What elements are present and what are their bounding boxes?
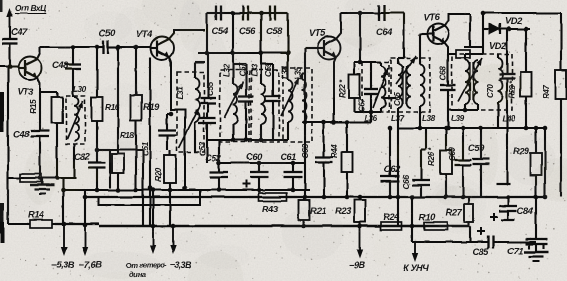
svg-text:VT6: VT6 bbox=[423, 11, 440, 22]
L30 tuning arrow bbox=[67, 101, 83, 139]
resistor R23 bbox=[355, 197, 366, 226]
node emitter RC bbox=[95, 148, 100, 153]
capacitor C70 bbox=[499, 29, 515, 184]
resistor R44 bbox=[342, 122, 353, 197]
drop 4 bbox=[287, 13, 289, 53]
label R28* bbox=[508, 80, 517, 99]
label C67 bbox=[357, 98, 366, 112]
label C85 bbox=[472, 246, 489, 257]
wire after C50 bbox=[118, 46, 151, 48]
label L33 bbox=[250, 63, 259, 77]
label VD2 lower bbox=[489, 40, 507, 51]
inductor L32 coil bbox=[233, 53, 238, 140]
node bbox=[524, 126, 529, 131]
osc injection riser bbox=[152, 190, 154, 226]
label L39 bbox=[451, 114, 465, 123]
VT5 base rail bbox=[305, 48, 317, 197]
label C52 bbox=[205, 152, 222, 163]
capacitor C55 bbox=[200, 53, 216, 112]
capacitor C59 shunt bbox=[266, 70, 281, 140]
wire C59 top bbox=[261, 64, 273, 70]
node bbox=[369, 110, 374, 115]
inductor L40 winding bbox=[474, 60, 479, 104]
inductor L37 coil bbox=[398, 58, 403, 108]
label C50 bbox=[99, 27, 116, 38]
VT5 collector to top bus bbox=[336, 13, 341, 39]
wire top bus y47 bbox=[40, 46, 97, 48]
label C53 bbox=[198, 141, 207, 156]
svg-text:C48: C48 bbox=[13, 128, 30, 139]
arrow oscillator input bbox=[150, 226, 156, 254]
inductor L38 coil bbox=[420, 60, 425, 128]
label C55 bbox=[206, 81, 215, 96]
node bbox=[506, 195, 511, 200]
svg-text:L39: L39 bbox=[451, 114, 465, 123]
svg-text:C85: C85 bbox=[472, 246, 489, 257]
left drop of filter bbox=[206, 13, 208, 53]
C70 column end bar bbox=[496, 183, 510, 185]
node R19 tap bbox=[134, 45, 139, 50]
capacitor C57 bbox=[239, 70, 254, 140]
resistor R24 bbox=[364, 222, 412, 230]
svg-text:C62: C62 bbox=[384, 163, 401, 174]
label От гетеродина bbox=[126, 261, 167, 279]
label -5,3В bbox=[51, 259, 75, 270]
label C47 bbox=[11, 26, 28, 37]
wire C57 top bbox=[233, 64, 246, 70]
plus C85 bbox=[477, 227, 485, 235]
label C63 bbox=[301, 143, 310, 158]
svg-text:C67: C67 bbox=[357, 98, 366, 112]
inductor L33 coil bbox=[261, 53, 266, 140]
capacitor C60 electrolytic bbox=[250, 163, 269, 190]
inductor L35 coil bbox=[302, 80, 307, 122]
riser x143 bbox=[142, 150, 144, 226]
label C60 bbox=[246, 151, 263, 162]
L36 tuning arrow bbox=[373, 68, 388, 108]
resistor R21 bbox=[299, 197, 310, 226]
drop 3 bbox=[260, 13, 262, 53]
capacitor C53 bbox=[199, 112, 216, 163]
label R24 bbox=[383, 211, 400, 222]
top bus right of VT5 bbox=[341, 12, 404, 14]
arrow -7.6V bbox=[82, 225, 88, 256]
svg-text:−9В: −9В bbox=[349, 259, 366, 270]
inductor L31 shield box bbox=[177, 72, 204, 152]
inductor L34 coil bbox=[288, 53, 293, 140]
VT6 base rail bbox=[420, 34, 427, 60]
wire VT3 base bbox=[0, 65, 19, 67]
node bbox=[446, 126, 451, 131]
wire L30 bottom to ground bus bbox=[73, 144, 75, 178]
plus C84 bbox=[490, 213, 498, 221]
node bbox=[61, 188, 66, 193]
label C84 bbox=[517, 205, 534, 216]
svg-text:C47: C47 bbox=[11, 26, 28, 37]
node bbox=[148, 186, 153, 191]
label R18 bbox=[120, 130, 135, 140]
label C65 bbox=[393, 92, 402, 106]
scan corner artifact bbox=[0, 0, 3, 12]
top bus of filter bbox=[207, 12, 288, 14]
svg-text:C71: C71 bbox=[507, 245, 523, 256]
VT3 emitter wire bbox=[37, 77, 40, 92]
label L34 bbox=[281, 65, 290, 79]
core lines L37 bbox=[403, 66, 406, 104]
label VT4 bbox=[136, 28, 153, 39]
inductor L31 coil bbox=[195, 72, 200, 152]
label VT3 bbox=[17, 86, 34, 97]
node bbox=[332, 120, 337, 125]
node R16 tap bbox=[95, 45, 100, 50]
resistor R18 bbox=[112, 47, 124, 190]
bottom bus bbox=[55, 224, 470, 226]
inter-box link bbox=[383, 97, 396, 99]
node bbox=[95, 188, 100, 193]
capacitor C82 bbox=[89, 150, 106, 190]
wire VT3 collector to top bus bbox=[37, 47, 40, 59]
label C68 bbox=[439, 66, 448, 80]
capacitor C84 electrolytic bbox=[499, 197, 517, 220]
label -9В bbox=[349, 259, 366, 270]
VT4 emitter wire bbox=[169, 57, 185, 188]
wire filter bottom to bus bbox=[218, 140, 220, 163]
transformer shield box L39 L40 bbox=[452, 54, 512, 110]
node bbox=[543, 195, 548, 200]
node bbox=[418, 126, 423, 131]
wire C51 top bbox=[167, 112, 173, 117]
label R27 bbox=[446, 206, 463, 217]
transistor VT6 bbox=[427, 24, 449, 45]
wire bus corner to audio bbox=[412, 226, 470, 242]
resistor R28 bbox=[521, 29, 532, 128]
capacitor C63 bbox=[315, 122, 333, 197]
label C70 bbox=[486, 84, 495, 98]
svg-text:VT3: VT3 bbox=[17, 86, 34, 97]
svg-text:R43: R43 bbox=[262, 203, 279, 214]
capacitor C66 bbox=[412, 128, 430, 197]
svg-text:−3,3В: −3,3В bbox=[170, 260, 193, 270]
capacitor C51 bbox=[158, 114, 176, 150]
resistor R29 bbox=[531, 128, 542, 197]
label R19 bbox=[143, 101, 160, 112]
label R20 bbox=[154, 167, 163, 182]
label R47 bbox=[542, 85, 551, 99]
svg-text:R20: R20 bbox=[154, 167, 163, 182]
capacitor C48 lower (emitter bypass) bbox=[31, 92, 50, 178]
node bbox=[358, 11, 363, 16]
transformer L34 L35 shield box bbox=[283, 68, 312, 142]
label C59 bbox=[468, 142, 485, 153]
node bbox=[322, 195, 327, 200]
wire R15 down to ground bus bbox=[56, 125, 58, 178]
label R14 bbox=[28, 209, 45, 220]
svg-text:VD2: VD2 bbox=[505, 15, 523, 26]
node bbox=[410, 224, 415, 229]
label C69 bbox=[448, 147, 457, 161]
svg-text:VT5: VT5 bbox=[309, 27, 326, 38]
label C82 bbox=[74, 151, 91, 162]
wire to R15 bbox=[40, 91, 57, 93]
label C58 bbox=[266, 25, 283, 36]
wire C50 node down bbox=[149, 57, 151, 226]
svg-text:R23: R23 bbox=[335, 205, 352, 216]
label C61 bbox=[280, 151, 296, 162]
label К УНЧ bbox=[403, 262, 430, 273]
drop 2 bbox=[232, 13, 234, 53]
scan edge artifact lower bbox=[0, 203, 4, 243]
capacitor C56 series bbox=[233, 6, 261, 21]
capacitor C62 bbox=[381, 128, 400, 197]
wire from VT3 base node down left rail bbox=[7, 66, 9, 224]
svg-text:L30: L30 bbox=[73, 85, 87, 94]
wire L39 top bbox=[465, 48, 483, 54]
label C64 bbox=[376, 26, 393, 37]
node bbox=[83, 223, 88, 228]
capacitor C69 bbox=[455, 128, 472, 197]
resistor R15 bbox=[52, 92, 63, 125]
label -3,3В bbox=[170, 260, 193, 270]
node bbox=[259, 11, 264, 16]
capacitor C61 bbox=[284, 163, 303, 190]
node bbox=[534, 126, 539, 131]
svg-text:L40: L40 bbox=[502, 114, 516, 123]
label R44 bbox=[330, 143, 339, 158]
node bbox=[217, 161, 222, 166]
VT6 emitter wire bbox=[444, 42, 456, 54]
node bbox=[257, 161, 262, 166]
label R10 bbox=[419, 211, 436, 222]
wire top bus corner down bbox=[398, 13, 404, 58]
label -7,6В bbox=[79, 259, 103, 270]
L31 tuning arrow bbox=[179, 108, 199, 148]
label R16 bbox=[105, 102, 120, 112]
node C48 tap bbox=[71, 45, 76, 50]
node bbox=[151, 188, 156, 193]
svg-text:C63: C63 bbox=[301, 143, 310, 158]
L32 tuning arrow bbox=[224, 82, 243, 118]
core lines L39 bbox=[470, 62, 473, 100]
jog wire bbox=[97, 150, 110, 188]
label C56 bbox=[239, 25, 256, 36]
arrow to AF amp bbox=[412, 242, 418, 262]
transistor VT3 bbox=[18, 57, 42, 80]
wire L35 bottom bbox=[302, 121, 305, 123]
L39 tuning arrow bbox=[458, 58, 482, 102]
node bbox=[302, 224, 307, 229]
capacitor C68 bbox=[441, 54, 456, 110]
wire det out rail bbox=[544, 128, 546, 197]
capacitor C52 bbox=[210, 140, 228, 190]
transformer shield box L37 bbox=[391, 58, 430, 112]
label R15 bbox=[29, 99, 38, 114]
wire R22 top bbox=[353, 62, 355, 72]
VT4 collector wire bbox=[169, 30, 205, 39]
label VD2 top bbox=[505, 15, 523, 26]
label C71 bbox=[507, 245, 523, 256]
label L36 bbox=[364, 114, 378, 123]
node bbox=[231, 138, 236, 143]
filter shield box 1 bbox=[220, 70, 249, 142]
capacitor C59 det bbox=[473, 128, 490, 197]
node bbox=[410, 195, 415, 200]
wire to mid bbox=[347, 112, 371, 122]
resistor R27 bbox=[465, 197, 474, 226]
wire C68 bottoms bbox=[448, 104, 478, 128]
resistor R47 bbox=[556, 13, 567, 197]
resistor R26 bbox=[440, 128, 452, 197]
inductor L36 coil bbox=[381, 62, 386, 112]
label L37 bbox=[391, 114, 405, 123]
cap bus y163 bbox=[219, 162, 305, 164]
node bbox=[38, 176, 43, 181]
svg-text:R44: R44 bbox=[330, 143, 339, 158]
label VT6 bbox=[423, 11, 440, 22]
svg-text:C84: C84 bbox=[517, 205, 534, 216]
scan edge artifact upper bbox=[0, 92, 4, 132]
inductor L40 output coil bbox=[498, 54, 503, 128]
label R29 bbox=[513, 145, 530, 156]
filter shield box 2 bbox=[251, 70, 279, 142]
label L40 bbox=[502, 114, 516, 123]
resistor R19 bbox=[131, 47, 142, 190]
label R26* bbox=[427, 147, 436, 166]
svg-text:−5,3В: −5,3В bbox=[51, 259, 75, 270]
node R18 tap bbox=[116, 45, 121, 50]
VT6 collector wire bbox=[444, 14, 470, 26]
L34 tuning arrow bbox=[281, 78, 299, 116]
label R22* bbox=[338, 79, 347, 98]
label C59 rot bbox=[264, 62, 273, 77]
inductor L30 coil bbox=[74, 97, 79, 141]
node bbox=[388, 126, 393, 131]
svg-text:L38: L38 bbox=[422, 114, 436, 123]
resistor R22 bbox=[349, 72, 360, 112]
resistor R20 bbox=[164, 150, 176, 226]
label От ВхЦ bbox=[15, 3, 46, 14]
label R21 bbox=[310, 205, 326, 216]
wire collector corner down bbox=[464, 14, 483, 47]
node bbox=[291, 161, 296, 166]
label C62 bbox=[384, 163, 401, 174]
label C54 bbox=[212, 25, 229, 36]
wire emitter bias tie bbox=[97, 149, 143, 151]
label L30 bbox=[73, 85, 87, 94]
wire transformer bottoms bbox=[354, 111, 381, 113]
resistor R16 bbox=[92, 47, 103, 150]
resistor (bias) on ground bus bbox=[20, 174, 41, 182]
main bus y197 bbox=[85, 196, 545, 198]
wire C85 to C71 bbox=[528, 241, 536, 243]
ground bus left bbox=[8, 177, 76, 179]
label C48 bbox=[52, 59, 69, 70]
capacitor C58 series bbox=[261, 6, 288, 21]
ground C71 bbox=[524, 244, 548, 261]
transistor VT5 bbox=[317, 37, 341, 60]
wire R14 rail bbox=[8, 223, 27, 225]
can top tie bbox=[354, 61, 381, 63]
resistor R14 bbox=[27, 220, 55, 228]
VT5 emitter down bbox=[334, 57, 336, 122]
label L35 bbox=[294, 66, 303, 80]
svg-text:R47: R47 bbox=[542, 85, 551, 99]
wire L35 top to VT5 base rail bbox=[302, 74, 305, 80]
resistor R43 in bus bbox=[248, 193, 297, 201]
arrow -3.3V bbox=[170, 226, 176, 254]
bus y205 segment bbox=[99, 190, 200, 205]
transistor VT4 bbox=[150, 37, 174, 60]
wire L31 top bbox=[195, 62, 205, 72]
node bbox=[62, 222, 67, 227]
node bbox=[205, 51, 210, 56]
label R23 bbox=[335, 205, 352, 216]
label C57 bbox=[238, 62, 247, 77]
capacitor C71 to ground bbox=[525, 197, 547, 244]
input arrow from tuner bbox=[7, 8, 13, 28]
node bbox=[55, 176, 60, 181]
arrow -9V bbox=[357, 226, 363, 258]
node bbox=[481, 11, 486, 16]
diode VD2 bbox=[483, 24, 530, 35]
riser x398 bbox=[397, 128, 399, 226]
wire can top feed bbox=[359, 13, 361, 62]
ground symbol bbox=[30, 178, 54, 194]
node: VT3 base junction bbox=[8, 64, 13, 69]
svg-text:От ВхЦ: От ВхЦ bbox=[15, 3, 46, 13]
capacitor C67 bbox=[364, 62, 378, 112]
emitter resistor bbox=[456, 50, 470, 58]
L37 tuning arrow bbox=[396, 56, 416, 84]
capacitor C54 series bbox=[207, 6, 233, 21]
wire riser x412 bbox=[411, 197, 413, 242]
node bbox=[396, 195, 401, 200]
resistor R10 bbox=[412, 222, 460, 230]
capacitor C48 bbox=[65, 47, 81, 97]
capacitor C50 series bbox=[97, 40, 118, 54]
lower mid bus y128 bbox=[398, 127, 545, 129]
wire VT6 collector top link bbox=[482, 13, 484, 48]
wire L37 bottom down bbox=[397, 108, 399, 128]
transformer shield box L36 bbox=[362, 62, 389, 112]
top bus right bbox=[483, 12, 561, 14]
inductor L37b winding bbox=[407, 64, 412, 108]
node bbox=[231, 11, 236, 16]
node bbox=[303, 120, 308, 125]
label L38 bbox=[422, 114, 436, 123]
capacitor C64 series bbox=[360, 5, 404, 21]
capacitor C85 series bbox=[470, 236, 528, 249]
label L32 bbox=[222, 63, 231, 77]
label C48 lower bbox=[13, 128, 30, 139]
node bbox=[444, 126, 449, 131]
tie x85 bbox=[84, 190, 86, 226]
svg-text:К УНЧ: К УНЧ bbox=[403, 262, 430, 273]
capacitor C47 bbox=[2, 26, 18, 66]
inductor L30 shield box bbox=[66, 96, 85, 144]
inductor L39 coil bbox=[465, 54, 470, 104]
AGC bus y190 bbox=[63, 189, 310, 191]
svg-text:VD2: VD2 bbox=[489, 40, 507, 51]
filter bottom tie bbox=[207, 139, 288, 141]
node bbox=[83, 195, 88, 200]
left tie bbox=[62, 178, 64, 226]
arrow -5.3V bbox=[61, 224, 67, 256]
node bbox=[217, 188, 222, 193]
label L31 bbox=[176, 86, 185, 100]
emitter tie bbox=[305, 121, 347, 123]
filter mid bus y53 bbox=[198, 52, 288, 54]
node bbox=[358, 60, 363, 65]
